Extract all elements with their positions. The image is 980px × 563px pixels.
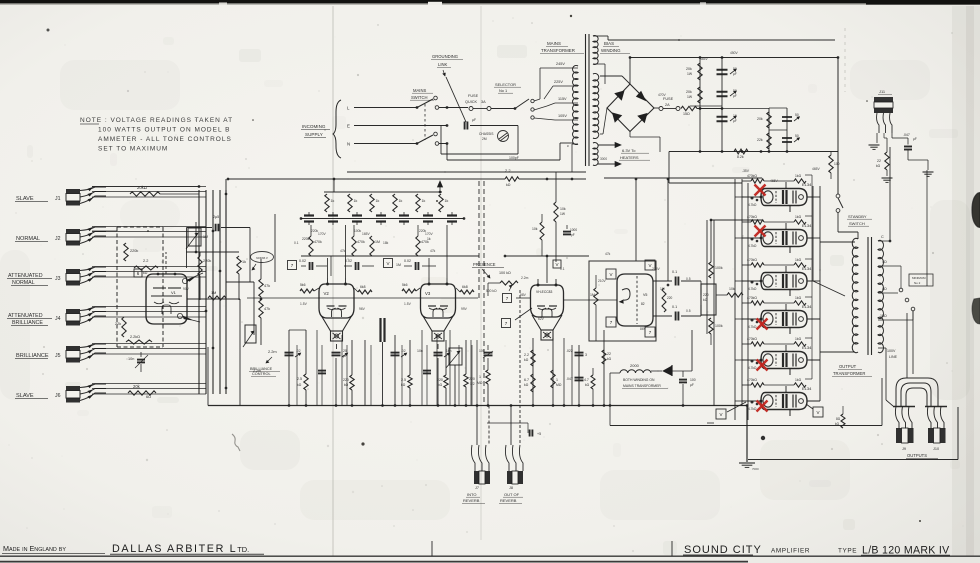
screened enclosure dashed box around V1 input network [117,226,163,228]
right edge binder mark lower [972,298,980,324]
resistor 22k bias [603,330,605,406]
svg-text:J5: J5 [55,353,61,359]
bias box outline [668,152,670,184]
svg-text:2A: 2A [665,103,670,107]
svg-text:kΩ: kΩ [585,383,590,387]
scan bottom edge line [0,561,748,563]
svg-text:FUSE: FUSE [468,94,479,98]
svg-text:MINIMUM: MINIMUM [912,276,926,280]
anode wire V7 [807,237,820,239]
grid leak resistor 470k V10 [751,342,764,346]
tap jumper wires [926,170,928,286]
mains switch pole N [416,142,419,145]
red X mark V9 [757,319,768,330]
svg-text:10k: 10k [729,287,735,291]
output tube V8 EL34 [761,273,807,290]
decoupling resistor 1k #5 [416,194,420,212]
PSU lower bus y=151.5 [669,151,838,153]
svg-text:4.7kΩ: 4.7kΩ [748,203,757,207]
svg-text:LINE: LINE [889,355,898,359]
grid feed wire V6 [742,196,761,198]
risers from OT taps [885,348,887,400]
svg-text:1kΩ: 1kΩ [795,258,802,262]
svg-text:0.1: 0.1 [294,241,299,245]
decoupling resistor 1k #2 [348,194,352,212]
svg-text:MΩ: MΩ [477,381,483,385]
jack J8 out of reverb [505,445,509,471]
svg-text:0.1: 0.1 [560,267,565,271]
svg-text:QUICK: QUICK [465,100,477,104]
svg-text:No 2: No 2 [914,281,921,285]
svg-text:96V: 96V [359,307,366,311]
svg-text:2.2m: 2.2m [253,369,261,373]
grid feed wire V11 [742,400,761,402]
nested bridge arcs [896,378,938,406]
title divider left [431,541,433,556]
cathode resistor V3 x=410 [409,340,411,375]
svg-text:220: 220 [667,296,673,300]
svg-text:4Ω: 4Ω [882,260,887,264]
decoupling resistor 1k #3 [370,194,374,212]
earth capacitor [446,124,449,127]
cap 16uF b [782,137,792,139]
svg-text:OUT OF: OUT OF [504,492,520,497]
svg-text:470k: 470k [357,240,365,244]
grid leak resistor 470k V7 [751,220,764,224]
svg-text:165V: 165V [362,232,371,236]
input jack J6 SLAVE [66,386,80,391]
svg-text:EL34: EL34 [802,182,812,187]
grid stopper resistor 1k V9 [794,301,806,305]
heater winding [593,143,598,166]
presence pot [500,281,518,285]
svg-text:1M: 1M [211,291,216,295]
bias winding coil [593,36,598,65]
svg-text:220: 220 [437,378,443,382]
resistor 2.2k lower [126,340,152,344]
wire bundle top to preamp [225,190,227,222]
OT enclosure outline [881,378,883,426]
fold crease top right [844,28,846,92]
volume pot box [245,325,256,343]
svg-text:220k: 220k [130,249,138,253]
HT secondary winding [593,73,599,138]
svg-text:1k: 1k [399,199,403,203]
svg-text:3: 3 [585,353,587,357]
svg-text:V1: V1 [171,290,177,295]
svg-text:6.7: 6.7 [524,378,529,382]
resistor 22k HT feed [505,177,519,181]
resistor 6.8k on bus [734,149,748,154]
svg-text:100: 100 [479,349,485,353]
supply brace [333,100,341,158]
cathode resistor 2.5k V2 [305,330,307,374]
pencil squiggle bottom-left [232,434,240,451]
cathode resistor 220k far [465,340,467,374]
svg-text:kΩ: kΩ [506,183,511,187]
jack J7 into reverb [471,445,475,471]
svg-text:E: E [347,124,350,129]
svg-text:16: 16 [733,114,737,118]
svg-text:4.7: 4.7 [584,378,589,382]
svg-text:15Ω: 15Ω [880,314,887,318]
chassis symbol [498,131,509,142]
svg-text:MAINS TRANSFORMER: MAINS TRANSFORMER [623,384,661,388]
svg-text:OUTPUTS: OUTPUTS [907,453,927,458]
anode bus y=256 [301,255,479,257]
svg-text:470kΩ: 470kΩ [747,258,757,262]
output jack bus J9 [893,406,915,408]
grid stopper resistor 1k V8 [794,263,806,267]
dropper 10k b [540,222,544,240]
extra blotches [240,430,300,470]
jack J10 [927,407,931,429]
svg-text:1kΩ: 1kΩ [795,378,802,382]
svg-text:1k: 1k [354,199,358,203]
svg-text:SOUND CITY: SOUND CITY [684,544,762,556]
dropper 10k 1W [555,172,557,202]
primary bottom tap c [572,143,578,145]
svg-text:50: 50 [733,89,737,93]
svg-text:100V: 100V [887,349,896,353]
grid feed jogs [743,197,745,295]
wire from bus y=179 down x=334 [333,179,335,192]
grid leak resistor 470k V6 [751,179,764,183]
output stage supply verticals [706,220,708,334]
svg-text:470k: 470k [314,240,322,244]
svg-text:82: 82 [641,302,645,306]
svg-text:1: 1 [479,375,481,379]
coupling cap 0.1 upper [675,277,677,286]
svg-text:4.7kΩ: 4.7kΩ [748,325,757,329]
svg-text:TYPE: TYPE [838,548,857,555]
primary winding [573,65,578,144]
svg-text:NOTE : VOLTAGE READINGS TAKEN: NOTE : VOLTAGE READINGS TAKEN AT [80,117,233,124]
bias line to output grids [691,330,693,371]
svg-text:kΩ: kΩ [524,358,529,362]
V5 outputs to coupling caps [653,280,672,282]
svg-text:kΩ: kΩ [344,383,349,387]
resistor 220k grid J2 [124,243,128,261]
svg-text:98V: 98V [520,293,527,297]
svg-text:SWITCH: SWITCH [849,221,865,226]
svg-text:1W: 1W [687,95,693,99]
svg-text:SLAVE: SLAVE [16,196,34,202]
vertical feeds left preamp [239,330,241,406]
svg-text:86V: 86V [640,327,647,331]
svg-text:V: V [555,262,558,267]
svg-text:100pF: 100pF [509,156,519,160]
preamp input riser x=275 [274,214,276,282]
svg-text:-35V: -35V [742,169,750,173]
bias filter cap 100uF [679,379,687,381]
svg-text:3000: 3000 [600,157,607,161]
svg-text:1M: 1M [590,293,595,297]
svg-text:J10: J10 [933,447,939,451]
svg-text:V: V [719,412,722,417]
svg-text:kΩ: kΩ [143,271,148,275]
svg-text:kΩ: kΩ [876,164,881,168]
svg-text:1M: 1M [375,240,380,244]
decoupling electrolytic cap #1 [304,214,314,216]
wire jack bundle to V1 grid [120,213,122,227]
output stage left bus ties [707,422,714,424]
svg-text:VH-ECC83: VH-ECC83 [536,290,552,294]
coupling cap V2b [344,265,352,267]
svg-text:90V: 90V [183,287,190,291]
svg-text:µF: µF [343,354,347,358]
test box V lower right [813,407,823,417]
svg-text:2.2: 2.2 [524,353,529,357]
V2 base drop wire [336,344,338,349]
svg-text:1kΩ: 1kΩ [795,296,802,300]
resistor 4.7k [591,375,595,389]
right edge binder mark upper [972,193,980,228]
svg-text:V: V [816,410,819,415]
bottom common bus y=405.5 [208,405,747,407]
wire anode bus y=252 [186,251,239,253]
svg-text:100: 100 [834,162,840,166]
input jack J1 SLAVE [66,189,80,194]
grid feed wire V9 [742,318,761,320]
svg-text:22: 22 [607,352,611,356]
svg-text:J9: J9 [902,447,906,451]
svg-text:100k: 100k [354,229,362,233]
svg-text:220k: 220k [203,259,211,263]
svg-text:J4: J4 [55,316,61,322]
svg-text:kΩ: kΩ [524,383,529,387]
decoupling resistor 1k #1 [325,194,329,212]
resistor 1k cathode [237,256,241,274]
svg-text:µF: µF [472,118,476,122]
grid feed wire V7 [742,237,761,239]
minimum load box [909,274,933,286]
resistor 470k anode V3 [416,236,420,256]
input jack J4 ATTENUATED BRILLIANCE [66,309,80,314]
resistor 2.2k [134,266,158,270]
svg-text:5k6: 5k6 [300,283,306,287]
svg-text:MAINS: MAINS [547,41,561,46]
large multisection cap [379,318,381,342]
V3 base drop wire [437,344,439,349]
svg-text:2.2m: 2.2m [521,276,529,280]
reverb takeoff wires [476,406,478,446]
standby feed vertical [837,58,839,195]
grid stopper resistor 1k V7 [794,220,806,224]
scatter specks 2 [464,367,465,368]
svg-text:100 WATTS OUTPUT ON MODEL B: 100 WATTS OUTPUT ON MODEL B [98,127,230,134]
svg-text:62V: 62V [538,317,545,321]
main filter caps x=722 [721,58,723,152]
svg-text:J6: J6 [55,393,61,399]
svg-text:220k: 220k [302,237,310,241]
svg-text:kΩ: kΩ [297,383,302,387]
extra small caps bottom row [318,370,326,372]
resistor 20k 1W lower [698,87,702,103]
svg-text:50: 50 [733,67,737,71]
svg-text:PRESENCE: PRESENCE [473,262,496,267]
title rule line [0,555,980,557]
svg-text:µF: µF [733,119,737,123]
primary taps [540,67,578,69]
screen bus connections [782,175,784,179]
red X mark V7 [755,226,766,237]
coupling cap V3 [404,265,412,267]
svg-text:1k: 1k [445,199,449,203]
test box V3 grid [384,259,393,268]
svg-text:SELECTOR: SELECTOR [495,82,516,87]
svg-text:15Ω: 15Ω [683,112,690,116]
V2 V3 top feed stubs [327,258,329,278]
grounding link wire [446,77,466,122]
decoupling resistor 1k #6 [439,194,443,212]
resistor 20k (slave J6 mix) [128,391,156,395]
cathode resistor V3b 220k [445,340,447,375]
svg-text:0.02: 0.02 [404,259,411,263]
resistor 50k b [767,133,771,149]
anode wire V8 [807,280,820,282]
svg-text:3A: 3A [481,100,486,104]
svg-text:465V: 465V [770,179,779,183]
svg-text:1k: 1k [376,199,380,203]
svg-text:20k: 20k [133,384,141,389]
coupling cap 0.1 lower [675,312,677,321]
cathode resistor 220k V2b [351,340,353,375]
main ground drop [746,406,748,463]
svg-text:AMPLIFIER: AMPLIFIER [771,548,810,555]
svg-text:0.5: 0.5 [686,277,691,281]
svg-text:2µ5: 2µ5 [213,215,219,219]
grid stopper resistor 1k V6 [794,179,806,183]
decoupling electrolytic cap #2 [328,214,338,216]
svg-text:OUTPUT: OUTPUT [839,364,857,369]
svg-text:220: 220 [343,378,349,382]
coupling cap V1 out [187,227,213,229]
svg-text:TRANSFORMER: TRANSFORMER [541,48,575,53]
tap terminals [899,288,903,292]
coupling cap V2a [301,265,306,267]
grid entry arrows V1 [182,278,187,283]
svg-text:1M: 1M [396,263,401,267]
svg-text:5k6: 5k6 [402,283,408,287]
svg-text:EL34: EL34 [802,266,812,271]
svg-text:50: 50 [795,134,799,138]
svg-text:µF: µF [733,94,737,98]
mains switch pole L [416,106,419,109]
svg-text:22k: 22k [757,138,763,142]
resistor 20k (slave J1 mix) [130,192,160,196]
svg-text:0.5: 0.5 [686,309,691,313]
psu link y=106 [690,105,722,107]
decoupling electrolytic cap #6 [423,214,433,216]
junction dots [227,178,230,181]
cap 100p presence [487,345,489,350]
svg-text:6.3V To: 6.3V To [622,148,636,153]
resistors 47k pair [259,279,263,297]
svg-text:NORMAL: NORMAL [16,236,40,242]
svg-text:2000: 2000 [630,363,640,368]
divider verticals V2-V3 [330,256,332,276]
svg-text:.047: .047 [903,133,910,137]
svg-text:REVERB: REVERB [463,498,480,503]
right edge smudge band [952,6,980,556]
resistor 470k anode V2a [309,236,313,256]
svg-text:100: 100 [690,378,696,382]
svg-text:EL34: EL34 [802,345,812,350]
scan top edge bar [0,0,980,3]
svg-text:47k: 47k [605,252,611,256]
svg-text:V3: V3 [425,291,431,296]
svg-text:6k8: 6k8 [462,285,468,289]
triode V2 [319,284,354,318]
triode V4 [531,285,564,317]
svg-text:J3: J3 [55,276,61,282]
svg-text:22k: 22k [115,322,121,326]
vertical drops left of V4 [563,338,565,406]
svg-text:0.1: 0.1 [672,270,677,274]
svg-text:REVERB: REVERB [500,498,517,503]
anode wire V6 [807,196,820,198]
svg-text:7000: 7000 [752,467,759,471]
grid reference line y=298 [247,297,478,299]
svg-text:1kΩ: 1kΩ [795,337,802,341]
svg-text:INCOMING: INCOMING [302,124,326,129]
svg-text:pF: pF [571,233,575,237]
svg-text:2.2kΩ: 2.2kΩ [130,335,140,339]
svg-text:470kΩ: 470kΩ [747,337,757,341]
lower feed bus y=425 [610,425,882,427]
svg-text:170V: 170V [425,232,434,236]
svg-text:kΩ: kΩ [835,422,840,426]
screen feed stubs [789,206,791,213]
svg-text:470kΩ: 470kΩ [747,174,757,178]
resistor 22k output divider [841,414,845,428]
anode collector verticals [812,186,814,281]
V2 cathode bypass cap 25uF [332,352,341,354]
svg-text:105V: 105V [558,114,567,118]
C tap riser [889,147,891,241]
svg-text:EL34: EL34 [802,223,812,228]
svg-text:8.2k: 8.2k [737,155,744,159]
resistor 1M presence [487,358,489,370]
drop wires to bottom bus [316,330,318,406]
svg-text:AMMETER - ALL TONE CONTROLS: AMMETER - ALL TONE CONTROLS [98,136,232,143]
svg-text:.02: .02 [401,349,406,353]
test point box 6 [134,269,142,277]
cap 16uF a [782,116,792,118]
svg-text:465V: 465V [700,57,709,61]
svg-text:µF: µF [733,72,737,76]
svg-text:1k: 1k [427,237,431,241]
svg-text:FUSE: FUSE [663,97,674,101]
decoupling resistor 1k #4 [393,194,397,212]
red X mark V6 [755,185,766,196]
grid resistor left V3 [402,289,416,293]
grid stopper resistor 1k V11 [794,383,806,387]
svg-text:C: C [881,235,884,239]
svg-text:470V: 470V [658,93,667,97]
svg-text:V2: V2 [324,291,330,296]
HT top bus [630,57,838,59]
J11 ground [876,133,878,143]
input jack J2 NORMAL [66,229,80,234]
svg-text:100k: 100k [715,266,723,270]
svg-text:20k: 20k [686,90,692,94]
preamp left vertical wire [225,179,227,228]
svg-text:215V: 215V [652,267,661,271]
svg-text:WINDING: WINDING [601,48,621,53]
resistor 15ohm [681,106,697,110]
